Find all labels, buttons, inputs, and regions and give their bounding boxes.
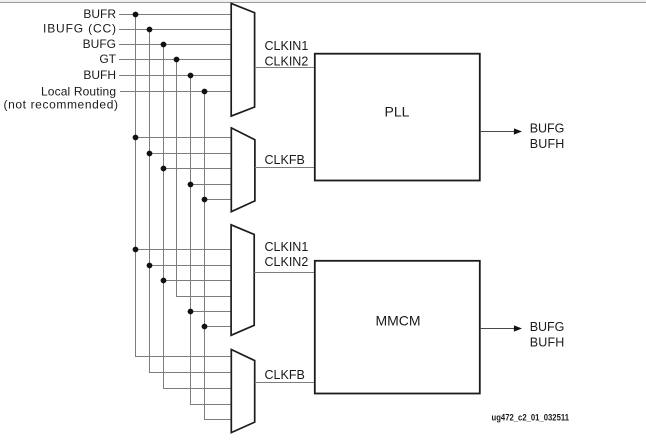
wire V6 branch to mux U3 [205,326,232,328]
node junction V2/U3 [147,263,153,269]
svg-text:CLKFB: CLKFB [265,153,305,167]
wire vertical net V2 (IBUFG) [149,30,151,373]
node junction V3/U2 [161,166,167,172]
wire V6 branch to mux U2 [205,199,232,201]
wire mux U4 output to MMCM CLKFB [255,382,315,384]
mux U3 (MMCM CLKIN mux) [231,225,254,335]
svg-text:PLL: PLL [385,103,410,119]
wire mux U2 output to PLL CLKFB [255,167,315,169]
wire mux U3 output to MMCM CLKIN [254,272,315,274]
wire BUFG to mux U1 [119,44,231,46]
wire V1 branch to mux U2 [136,137,232,139]
wire vertical net V5 (BUFH) [190,76,192,405]
mux U4 (MMCM CLKFB mux) [231,350,254,433]
wire mux U1 output to PLL CLKIN [255,67,315,69]
wire V3 branch to mux U3 [164,280,232,282]
svg-text:BUFG: BUFG [530,320,565,334]
svg-text:BUFR: BUFR [83,7,116,21]
wire V4 elbow to mux U3 [176,296,231,298]
wire V1 elbow to mux U4 [135,356,231,358]
svg-text:ug472_c2_01_032511: ug472_c2_01_032511 [492,413,570,423]
wire vertical net V4 (GT) [176,60,178,297]
svg-text:MMCM: MMCM [375,312,420,328]
svg-text:BUFH: BUFH [530,137,565,151]
wire IBUFG to mux U1 [119,29,231,31]
wire PLL output arrow [480,131,515,133]
wire vertical net V6 (Local Routing) [204,92,206,420]
wire vertical net V1 (BUFR) [135,15,137,357]
wire V2 elbow to mux U4 [149,372,231,374]
svg-text:CLKIN2: CLKIN2 [265,55,309,69]
wire V2 branch to mux U3 [150,265,232,267]
node junction V5 row5 [188,73,194,79]
MMCM block U6 [315,261,480,394]
node junction V2 row2 [147,27,153,33]
svg-text:Local Routing: Local Routing [41,85,116,99]
wire V5 branch to mux U2 [191,184,232,186]
svg-text:GT: GT [99,52,116,66]
wire BUFR to mux U1 [119,14,231,16]
wire V2 branch to mux U2 [150,153,232,155]
svg-text:CLKFB: CLKFB [265,368,305,382]
wire GT to mux U1 [119,59,231,61]
node junction V6/U2 [202,197,208,203]
wire V5 branch to mux U3 [191,311,232,313]
node junction V1/U2 [133,135,139,141]
svg-text:BUFH: BUFH [530,335,565,349]
node junction V6 row6 [202,89,208,95]
node junction V6/U3 [202,324,208,330]
wire V6 elbow to mux U4 [204,419,231,421]
wire BUFH to mux U1 [119,75,231,77]
PLL block U5 [315,54,480,181]
top border [0,0,646,2]
node junction V1/U3 [133,247,139,253]
wire V3 branch to mux U2 [164,168,232,170]
node junction V5/U3 [188,309,194,315]
svg-text:IBUFG (CC): IBUFG (CC) [43,22,116,36]
svg-text:(not recommended): (not recommended) [4,98,119,112]
svg-text:CLKIN1: CLKIN1 [265,39,309,53]
svg-text:BUFH: BUFH [83,68,116,82]
svg-text:CLKIN2: CLKIN2 [265,255,309,269]
wire Local Routing to mux U1 [120,91,231,93]
wire V5 elbow to mux U4 [190,404,231,406]
node junction V4 row4 [174,57,180,63]
mux U1 (PLL CLKIN mux) [231,3,254,116]
node junction V2/U2 [147,151,153,157]
node junction V3/U3 [161,278,167,284]
wire vertical net V3 (BUFG) [163,45,165,389]
wire MMCM output arrow [480,328,515,330]
svg-text:CLKIN1: CLKIN1 [265,240,309,254]
node junction V3 row3 [161,42,167,48]
node junction V1 row1 [133,12,139,18]
mux U2 (PLL CLKFB mux) [231,128,255,212]
node junction V5/U2 [188,182,194,188]
wire V1 branch to mux U3 [136,249,232,251]
wire V3 elbow to mux U4 [163,388,231,390]
svg-text:BUFG: BUFG [83,37,116,51]
svg-text:BUFG: BUFG [530,122,565,136]
